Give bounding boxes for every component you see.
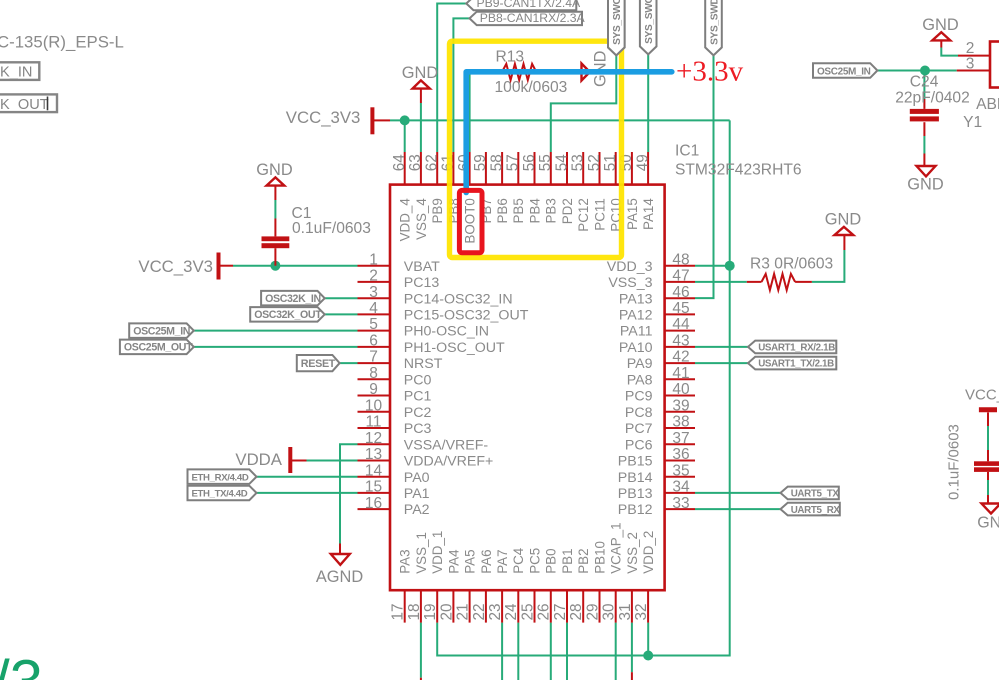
- svg-text:PB6: PB6: [495, 198, 510, 223]
- wire GND to pin63 VSS_4: [420, 89, 422, 103]
- pin 45 PA12 (right): [665, 313, 695, 315]
- svg-text:GND: GND: [922, 16, 959, 34]
- svg-text:PA0: PA0: [404, 470, 430, 486]
- label OSC25M_IN right: [813, 63, 877, 78]
- svg-text:VSS_4: VSS_4: [414, 198, 429, 240]
- wire pin34 PB13 to UART5_TX label: [695, 492, 781, 494]
- svg-text:37: 37: [672, 430, 689, 447]
- wire cap to GND right edge: [987, 472, 989, 480]
- svg-text:VCC_3V3: VCC_3V3: [138, 257, 213, 276]
- pin 61 PB8 (top): [452, 152, 454, 185]
- ground GND above pin63: [413, 80, 430, 88]
- svg-text:45: 45: [672, 300, 689, 317]
- svg-text:PB5: PB5: [511, 198, 526, 223]
- svg-text:20: 20: [438, 603, 455, 620]
- svg-text:VDD_2: VDD_2: [641, 531, 656, 574]
- svg-text:VSS_2: VSS_2: [625, 532, 640, 574]
- svg-text:0.1uF/0603: 0.1uF/0603: [946, 424, 963, 500]
- wire pin24 continuation below: [517, 623, 519, 680]
- pin 25 PC5 (bottom): [534, 590, 536, 622]
- svg-text:PH1-OSC_OUT: PH1-OSC_OUT: [404, 340, 505, 356]
- svg-text:10: 10: [365, 397, 383, 414]
- ground GND above crystal: [932, 32, 950, 40]
- svg-text:43: 43: [672, 333, 689, 350]
- svg-text:PA7: PA7: [495, 549, 510, 573]
- svg-text:VDDA: VDDA: [235, 450, 282, 469]
- svg-text:+3.3v: +3.3v: [676, 56, 744, 88]
- svg-text:PA8: PA8: [627, 372, 653, 388]
- svg-text:PB13: PB13: [618, 486, 653, 502]
- svg-text:PB9-CAN1TX/2.4A: PB9-CAN1TX/2.4A: [477, 0, 582, 10]
- wire junction to C24 top: [923, 71, 925, 100]
- svg-text:C24: C24: [910, 74, 939, 91]
- svg-text:BOOT0: BOOT0: [463, 198, 478, 243]
- wire OSC25M_OUT label to pin6: [194, 346, 358, 348]
- svg-text:PC14-OSC32_IN: PC14-OSC32_IN: [404, 291, 513, 307]
- label OSC25M_OUT: [120, 340, 194, 355]
- svg-text:56: 56: [521, 154, 538, 171]
- svg-text:52: 52: [586, 154, 603, 171]
- wire C24 bottom to GND: [923, 122, 925, 136]
- pin 19 VDD_1 (bottom): [436, 590, 438, 622]
- wire R3 to GND: [812, 250, 845, 282]
- wire ETH_TX label to pin15: [257, 492, 358, 494]
- pin 40 PC9 (right): [665, 395, 695, 397]
- svg-text:VBAT: VBAT: [404, 259, 440, 275]
- svg-text:PC1: PC1: [404, 389, 432, 405]
- crystal Y1 box partial: [990, 42, 999, 88]
- svg-text:VCC_3V3: VCC_3V3: [965, 387, 999, 404]
- svg-text:31: 31: [617, 603, 634, 620]
- svg-text:47: 47: [672, 268, 689, 285]
- pin 63 VSS_4 (top): [420, 152, 422, 185]
- svg-text:VCAP_1: VCAP_1: [609, 522, 624, 573]
- svg-text:STM32F423RHT6: STM32F423RHT6: [675, 161, 802, 178]
- svg-text:/3: /3: [0, 648, 43, 680]
- svg-text:SYS_SWO: SYS_SWO: [612, 0, 623, 45]
- svg-text:UART5_TX: UART5_TX: [791, 489, 840, 500]
- svg-text:8: 8: [369, 365, 378, 382]
- annotation yellow highlight rectangle: [450, 41, 622, 257]
- supply VDDA bar: [288, 447, 292, 473]
- svg-text:23: 23: [487, 603, 504, 620]
- svg-text:5: 5: [369, 316, 378, 333]
- text cursor caret after K_OUT: [47, 97, 49, 111]
- label PB9-CAN1TX/2.4A: [466, 0, 576, 10]
- svg-text:PC3: PC3: [404, 421, 432, 437]
- pin 57 PB5 (top): [517, 152, 519, 185]
- label K_OUT partial box: [0, 94, 57, 112]
- junction VCC at pin32: [643, 651, 653, 661]
- annotation blue marker line: [466, 72, 672, 193]
- svg-text:VSS_3: VSS_3: [608, 275, 652, 291]
- svg-text:26: 26: [536, 603, 553, 620]
- wire pin30 continuation below: [615, 623, 617, 680]
- svg-text:SYS_SWCLK: SYS_SWCLK: [644, 0, 655, 44]
- svg-text:GND: GND: [402, 64, 439, 82]
- svg-text:K_OUT: K_OUT: [0, 97, 49, 113]
- pin 13 VDDA/VREF+ (left): [358, 460, 391, 462]
- svg-text:OSC25M_IN: OSC25M_IN: [817, 66, 871, 77]
- pin 62 PB9 (top): [436, 152, 438, 185]
- wire C1 bottom to pin1 net: [274, 248, 276, 266]
- pin 48 VDD_3 (right): [665, 265, 695, 267]
- label OSC25M_IN: [129, 323, 194, 338]
- pin 56 PB4 (top): [534, 152, 536, 185]
- resistor R13 zigzag body: [502, 64, 536, 80]
- label ETH_RX/4.4D: [188, 469, 257, 484]
- svg-text:IC1: IC1: [675, 142, 699, 159]
- svg-text:58: 58: [488, 154, 505, 171]
- svg-text:GND: GND: [825, 210, 862, 228]
- label SYS_SWCLK: [640, 0, 657, 54]
- svg-text:SYS_SWDIO: SYS_SWDIO: [709, 0, 720, 45]
- resistor R3 leads: [747, 281, 812, 283]
- pin 33 PB12 (right): [665, 508, 695, 510]
- pin 58 PB6 (top): [501, 152, 503, 185]
- svg-text:59: 59: [472, 154, 489, 171]
- svg-text:VDD_4: VDD_4: [398, 198, 413, 242]
- svg-text:21: 21: [455, 603, 472, 620]
- wire OSC32K_OUT label to pin4: [325, 313, 358, 315]
- label OSC32K_IN: [261, 291, 325, 306]
- wire OSC25M_IN to crystal pin3: [877, 70, 956, 72]
- svg-text:13: 13: [365, 446, 382, 463]
- svg-text:OSC32K_OUT: OSC32K_OUT: [254, 309, 322, 321]
- svg-text:30: 30: [601, 603, 618, 620]
- svg-text:ETH_RX/4.4D: ETH_RX/4.4D: [192, 473, 249, 484]
- svg-text:100k/0603: 100k/0603: [495, 79, 568, 96]
- svg-text:7: 7: [369, 349, 378, 366]
- label SYS_SWO: [608, 0, 625, 55]
- pin 10 PC2 (left): [358, 411, 391, 413]
- svg-text:UART5_RX: UART5_RX: [791, 505, 841, 516]
- svg-text:PC9: PC9: [625, 389, 653, 405]
- wire OSC25M_IN label to pin5: [194, 330, 358, 332]
- svg-text:35: 35: [672, 462, 689, 479]
- pin 6 PH1-OSC_OUT (left): [358, 346, 391, 348]
- svg-text:0.1uF/0603: 0.1uF/0603: [292, 220, 371, 237]
- pin 5 PH0-OSC_IN (left): [358, 330, 391, 332]
- svg-text:OSC32K_IN: OSC32K_IN: [265, 293, 321, 305]
- svg-text:27: 27: [552, 603, 569, 620]
- pin 4 PC15-OSC32_OUT (left): [358, 313, 391, 315]
- svg-text:GND: GND: [907, 176, 944, 194]
- pin 22 PA6 (bottom): [485, 590, 487, 622]
- svg-text:PB9: PB9: [430, 198, 445, 223]
- svg-text:PC12: PC12: [576, 198, 591, 232]
- pin 9 PC1 (left): [358, 395, 391, 397]
- svg-text:53: 53: [570, 154, 587, 171]
- pin 26 PB0 (bottom): [550, 590, 552, 622]
- pin 49 PA14 (top): [647, 152, 649, 185]
- pin 27 PB1 (bottom): [566, 590, 568, 622]
- pin 36 PB15 (right): [665, 460, 695, 462]
- wire pin33 PB12 to UART5_RX label: [695, 508, 781, 510]
- label K_IN partial box: [0, 62, 39, 80]
- pin 21 PA5 (bottom): [469, 590, 471, 622]
- svg-text:57: 57: [505, 154, 522, 171]
- junction VCC at pin64 branch: [400, 115, 410, 125]
- pin 39 PC8 (right): [665, 411, 695, 413]
- ground triangle right edge: [982, 504, 999, 514]
- pin 20 PA4 (bottom): [452, 590, 454, 622]
- wire pin27 continuation below: [566, 623, 568, 680]
- wire pin31 continuation below: [631, 623, 633, 673]
- svg-text:16: 16: [365, 495, 382, 512]
- svg-text:14: 14: [365, 462, 383, 479]
- wire VCC bar to cap: [987, 412, 989, 426]
- svg-text:22: 22: [471, 603, 488, 620]
- svg-text:29: 29: [584, 603, 601, 620]
- label UART5_TX: [781, 487, 839, 500]
- svg-text:6: 6: [369, 333, 378, 350]
- svg-text:18: 18: [406, 603, 423, 620]
- svg-text:PB4: PB4: [527, 198, 542, 224]
- wire BOOT0 pin60 up to R13: [470, 72, 486, 152]
- svg-text:PC6: PC6: [625, 437, 653, 453]
- pin 32 VDD_2 (bottom): [647, 590, 649, 622]
- svg-text:PB12: PB12: [618, 502, 653, 518]
- svg-text:62: 62: [424, 154, 441, 171]
- svg-text:PA10: PA10: [619, 340, 653, 356]
- svg-text:15: 15: [365, 479, 382, 496]
- pin 7 NRST (left): [358, 362, 391, 364]
- pin 59 PB7 (top): [485, 152, 487, 185]
- wire pin48 VDD_3 to trunk: [695, 265, 730, 267]
- svg-text:PA1: PA1: [404, 486, 430, 502]
- svg-text:39: 39: [672, 397, 689, 414]
- pin 50 PA15 (top): [631, 152, 633, 185]
- svg-text:AGND: AGND: [316, 568, 364, 586]
- pin 35 PB14 (right): [665, 476, 695, 478]
- svg-text:44: 44: [672, 316, 690, 333]
- svg-text:9: 9: [369, 381, 378, 398]
- pin 29 PB10 (bottom): [599, 590, 601, 622]
- svg-text:PB14: PB14: [618, 470, 653, 486]
- junction at C24: [920, 66, 930, 76]
- junction C1 at pin1 wire: [270, 261, 280, 271]
- pin 3 PC14-OSC32_IN (left): [358, 297, 391, 299]
- svg-text:GND: GND: [592, 50, 610, 87]
- supply bar VCC_3V3 right edge: [979, 407, 997, 412]
- label OSC32K_OUT: [250, 307, 325, 322]
- wire SYS_SWCLK label to pin49 PA14: [647, 54, 649, 152]
- pin 64 VDD_4 (top): [404, 152, 406, 185]
- op IC1 body rectangle: [390, 185, 665, 591]
- pin 28 PB2 (bottom): [582, 590, 584, 622]
- wire PB9 label to pin62: [437, 4, 466, 153]
- label SYS_SWDIO: [705, 0, 722, 55]
- label USART1_TX/2.1B: [748, 357, 836, 370]
- wire AGND stem: [339, 544, 341, 554]
- svg-text:PB3: PB3: [544, 198, 559, 223]
- pin 14 PA0 (left): [358, 476, 391, 478]
- svg-text:12: 12: [365, 430, 382, 447]
- svg-text:36: 36: [672, 446, 689, 463]
- pin 8 PC0 (left): [358, 378, 391, 380]
- wire RESET label to pin7: [340, 362, 358, 364]
- wire GND to C1 top: [274, 186, 276, 200]
- wire VCC_3V3 vertical trunk down right side: [437, 120, 730, 655]
- svg-text:49: 49: [634, 154, 651, 171]
- svg-text:ABM: ABM: [976, 96, 999, 113]
- svg-text:PC11: PC11: [592, 198, 607, 231]
- wire pin64 VDD_4 branch: [404, 120, 406, 152]
- pin 54 PD2 (top): [566, 152, 568, 185]
- svg-text:3: 3: [369, 284, 378, 301]
- svg-text:Y1: Y1: [963, 114, 982, 131]
- pin 37 PC6 (right): [665, 443, 695, 445]
- svg-text:33: 33: [672, 495, 689, 512]
- svg-text:48: 48: [672, 251, 689, 268]
- junction VCC at pin48: [725, 261, 735, 271]
- svg-text:41: 41: [672, 365, 689, 382]
- wire PB8 label to pin61: [453, 18, 469, 152]
- svg-text:PA4: PA4: [446, 549, 461, 574]
- pin 1 VBAT (left): [358, 265, 391, 267]
- wire SYS_SWO label to pin55 PB3: [551, 55, 617, 152]
- svg-text:PB2: PB2: [576, 548, 591, 573]
- capacitor C1 plates: [262, 236, 290, 241]
- capacitor C24 plates: [910, 109, 939, 114]
- svg-text:55: 55: [537, 154, 554, 171]
- pin 11 PC3 (left): [358, 427, 391, 429]
- pin 2 PC13 (left): [358, 281, 391, 283]
- svg-text:PA3: PA3: [398, 549, 413, 573]
- svg-text:64: 64: [391, 154, 408, 172]
- resistor R3 zigzag body: [762, 274, 796, 290]
- svg-text:ETH_TX/4.4D: ETH_TX/4.4D: [192, 489, 248, 500]
- label PB8-CAN1RX/2.3A: [470, 12, 583, 25]
- pin 23 PA7 (bottom): [501, 590, 503, 622]
- svg-text:46: 46: [672, 284, 689, 301]
- pin 18 VSS_1 (bottom): [420, 590, 422, 622]
- svg-text:K_IN: K_IN: [0, 64, 32, 80]
- pin 42 PA9 (right): [665, 362, 695, 364]
- svg-text:VSSA/VREF-: VSSA/VREF-: [404, 437, 489, 453]
- wire VCC_3V3 top horizontal rail: [390, 119, 730, 121]
- wire pin12 VSSA to AGND: [340, 444, 358, 543]
- svg-text:PB1: PB1: [560, 548, 575, 573]
- pin 15 PA1 (left): [358, 492, 391, 494]
- svg-text:63: 63: [407, 154, 424, 171]
- wire pin47 VSS_3 to R3: [695, 281, 747, 283]
- wire ETH_RX label to pin14: [257, 476, 358, 478]
- svg-text:4: 4: [369, 300, 378, 317]
- pin 60 BOOT0 (top): [469, 152, 471, 185]
- pin 17 PA3 (bottom): [404, 590, 406, 622]
- svg-text:38: 38: [672, 414, 689, 431]
- pin 43 PA10 (right): [665, 346, 695, 348]
- svg-text:25: 25: [519, 603, 536, 620]
- pin 52 PC11 (top): [599, 152, 601, 185]
- svg-text:VSS_1: VSS_1: [414, 532, 429, 574]
- svg-text:19: 19: [422, 603, 439, 620]
- ground GND above C1: [267, 177, 285, 185]
- supply VCC_3V3 top bar: [370, 107, 374, 134]
- pin 34 PB13 (right): [665, 492, 695, 494]
- svg-text:PC7: PC7: [625, 421, 653, 437]
- svg-text:PH0-OSC_IN: PH0-OSC_IN: [404, 324, 489, 340]
- ground GND rotated right of R13: [582, 64, 590, 81]
- label ETH_TX/4.4D: [188, 486, 257, 501]
- svg-text:PA5: PA5: [463, 549, 478, 573]
- svg-text:VDD_3: VDD_3: [607, 259, 653, 275]
- svg-text:28: 28: [568, 603, 585, 620]
- svg-text:OSC25M_IN: OSC25M_IN: [133, 325, 190, 337]
- svg-text:PB10: PB10: [592, 541, 607, 574]
- wire GND to crystal pin2: [940, 40, 942, 47]
- svg-text:PB15: PB15: [618, 454, 653, 470]
- svg-text:OSC25M_OUT: OSC25M_OUT: [124, 342, 193, 354]
- svg-text:34: 34: [672, 479, 690, 496]
- ground GND right of R3: [835, 227, 854, 235]
- svg-text:PC4: PC4: [511, 547, 526, 574]
- wire pin32 VDD_2 to trunk: [647, 623, 649, 656]
- svg-text:PC13: PC13: [404, 275, 440, 291]
- svg-text:PC5: PC5: [527, 548, 542, 574]
- svg-text:GND: GND: [977, 515, 999, 532]
- svg-text:C-135(R)_EPS-L: C-135(R)_EPS-L: [0, 32, 124, 51]
- svg-text:1: 1: [369, 251, 378, 268]
- svg-text:PC0: PC0: [404, 372, 432, 388]
- svg-text:42: 42: [672, 349, 689, 366]
- capacitor right edge plates: [974, 461, 999, 466]
- svg-text:PA13: PA13: [619, 291, 653, 307]
- svg-text:PB8-CAN1RX/2.3A: PB8-CAN1RX/2.3A: [480, 11, 586, 25]
- label RESET: [297, 355, 340, 371]
- pin 51 PC10 (top): [615, 152, 617, 185]
- pin 12 VSSA/VREF- (left): [358, 443, 391, 445]
- svg-text:11: 11: [365, 414, 381, 431]
- pin 30 VCAP_1 (bottom): [615, 590, 617, 622]
- pin 44 PA11 (right): [665, 330, 695, 332]
- wire OSC32K_IN label to pin3: [325, 297, 358, 299]
- pin 53 PC12 (top): [582, 152, 584, 185]
- pin 41 PA8 (right): [665, 378, 695, 380]
- svg-text:USART1_RX/2.1B: USART1_RX/2.1B: [758, 343, 835, 354]
- wire VCC_3V3 left to pin1 VBAT: [220, 265, 233, 267]
- svg-text:32: 32: [633, 603, 650, 620]
- wire pin42 PA9 to USART1_TX label: [695, 362, 748, 364]
- pin 38 PC7 (right): [665, 427, 695, 429]
- svg-text:51: 51: [602, 154, 619, 171]
- label SYS_SWO over yellow: [608, 0, 625, 55]
- svg-text:PA6: PA6: [479, 549, 494, 573]
- label UART5_RX: [781, 503, 840, 516]
- wire VDDA to pin13: [292, 460, 307, 462]
- svg-text:PC15-OSC32_OUT: PC15-OSC32_OUT: [404, 308, 529, 324]
- ground AGND: [331, 554, 350, 565]
- svg-text:NRST: NRST: [404, 356, 443, 372]
- svg-text:PC2: PC2: [404, 405, 432, 421]
- ground GND below C24: [917, 166, 936, 176]
- svg-text:40: 40: [672, 381, 690, 398]
- svg-text:PA9: PA9: [627, 356, 653, 372]
- svg-text:USART1_TX/2.1B: USART1_TX/2.1B: [758, 359, 834, 370]
- svg-text:PD2: PD2: [560, 198, 575, 224]
- svg-text:GND: GND: [256, 161, 293, 179]
- pin 16 PA2 (left): [358, 508, 391, 510]
- svg-text:VDDA/VREF+: VDDA/VREF+: [404, 454, 493, 470]
- wire SYS_SWDIO label to pin46 PA13: [695, 55, 714, 298]
- pin 46 PA13 (right): [665, 297, 695, 299]
- svg-text:17: 17: [390, 603, 407, 620]
- svg-text:PA14: PA14: [641, 198, 656, 230]
- supply VCC_3V3 left bar: [217, 253, 221, 280]
- label USART1_RX/2.1B: [748, 341, 836, 354]
